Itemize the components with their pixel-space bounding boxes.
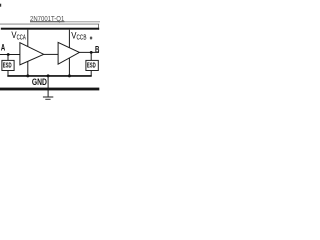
wire VCCB to buffer U2 (68, 30, 70, 48)
junction GND (47, 74, 50, 77)
GND rail (7, 75, 91, 77)
edge mark (cut-off glyph at left border) (0, 4, 1, 7)
junction U2 ground (68, 74, 71, 77)
background (0, 0, 100, 100)
ESD cell left (2, 60, 14, 70)
wire ESD left to GND rail (7, 71, 9, 77)
wire ESD right to GND rail (90, 71, 92, 77)
svg-text:ESD: ESD (87, 61, 96, 70)
rule extension to right edge (65, 21, 101, 23)
outer box top-right corner (98, 24, 100, 30)
wire A to ESD cell (7, 55, 9, 61)
outer box top edge (thin) (0, 23, 99, 25)
wire VCCA to buffer U1 (27, 30, 29, 47)
wire A input (0, 54, 20, 56)
pin number blob near B (90, 37, 92, 40)
buffer U1 (triangle) (20, 43, 44, 65)
wire U2 output to B (79, 51, 99, 53)
node A junction (7, 53, 10, 56)
wire B to ESD cell (90, 52, 92, 60)
svg-text:B: B (95, 44, 100, 55)
buffer U2 (triangle) (58, 42, 79, 64)
node B junction (90, 51, 93, 54)
wire U1 to GND rail (27, 61, 29, 76)
ground symbol bar 1 (43, 96, 53, 98)
VCC top rail (thick) (1, 28, 99, 30)
rule under part number (30, 21, 65, 23)
junction U1 ground (26, 74, 29, 77)
svg-text:A: A (1, 42, 6, 52)
svg-text:CCA: CCA (17, 34, 26, 41)
svg-text:ESD: ESD (3, 61, 12, 70)
svg-text:GND: GND (32, 77, 47, 87)
svg-text:CCB: CCB (77, 34, 87, 41)
wire U1 to U2 (44, 53, 58, 55)
ESD cell right (86, 60, 98, 70)
outer box bottom edge (thick) (0, 88, 99, 91)
ground symbol bar 2 (45, 98, 50, 100)
wire GND down (47, 76, 49, 97)
wire U2 to GND rail (68, 58, 70, 76)
